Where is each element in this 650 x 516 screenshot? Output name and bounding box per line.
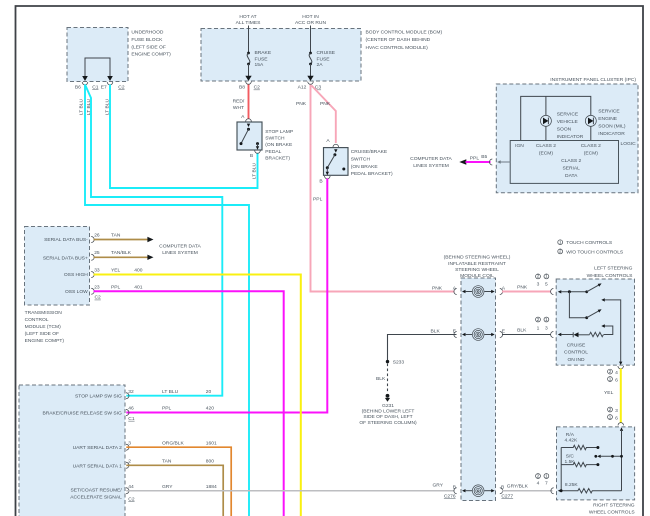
svg-text:WHT: WHT	[233, 105, 244, 111]
svg-text:S233: S233	[393, 360, 405, 366]
svg-text:PPL: PPL	[470, 155, 480, 161]
svg-text:STOP LAMP SW SIG: STOP LAMP SW SIG	[75, 394, 122, 400]
svg-text:2: 2	[609, 369, 612, 375]
svg-text:6: 6	[615, 416, 618, 422]
svg-text:LT BLU: LT BLU	[104, 98, 110, 115]
svg-text:3: 3	[537, 282, 540, 288]
cruise control on ind: diode	[573, 332, 589, 337]
indicator: service vehicle soon	[540, 111, 583, 140]
svg-text:SERVICE: SERVICE	[598, 108, 620, 114]
resistor S/C 1.5K	[561, 448, 599, 491]
svg-text:S/C: S/C	[566, 453, 575, 459]
module: transmission control module (TCM)	[25, 227, 90, 344]
svg-text:R/A: R/A	[566, 432, 575, 438]
svg-text:INDICATOR: INDICATOR	[557, 134, 584, 140]
wire GRY/BLK (coil B to right steering wheel controls)	[502, 473, 553, 490]
svg-text:4.42K: 4.42K	[565, 437, 579, 443]
svg-text:OSS LOW: OSS LOW	[65, 289, 88, 295]
svg-text:ON IND: ON IND	[567, 357, 585, 363]
svg-text:4: 4	[537, 481, 540, 487]
svg-text:B: B	[501, 485, 504, 491]
svg-text:SWITCH: SWITCH	[265, 136, 285, 142]
svg-text:1601: 1601	[206, 440, 217, 446]
svg-text:1: 1	[609, 414, 612, 420]
left controls: switch blade 1	[585, 283, 601, 293]
pin 44 set/coast resume/accelerate signal / wire GRY 1884	[70, 484, 454, 503]
svg-text:(CENTER OF DASH BEHIND: (CENTER OF DASH BEHIND	[366, 37, 431, 43]
svg-text:COMPUTER DATA: COMPUTER DATA	[159, 244, 201, 250]
connector C3 pin A12	[298, 82, 322, 91]
coil B (pin B to pin B)	[432, 482, 528, 499]
svg-text:INFLATABLE RESTRAINT: INFLATABLE RESTRAINT	[448, 261, 506, 267]
svg-text:LOGIC: LOGIC	[621, 141, 637, 147]
indicator: service engine soon (MIL)	[585, 108, 626, 137]
pin 3 UART serial data 2 / wire ORG/BLK 1601	[73, 440, 232, 516]
svg-text:COMPUTER DATA: COMPUTER DATA	[410, 156, 452, 162]
label HOT IN ACC OR RUN	[295, 14, 326, 26]
wire BLK dashed to ground	[376, 364, 387, 394]
svg-text:GRY: GRY	[432, 482, 443, 488]
svg-text:BLK: BLK	[431, 328, 441, 334]
left controls: branch to switch blade 2	[569, 292, 601, 319]
svg-text:SET/COAST RESUME/: SET/COAST RESUME/	[71, 488, 123, 494]
svg-text:15A: 15A	[255, 62, 264, 68]
svg-text:CRUISE: CRUISE	[567, 342, 586, 348]
connector C2 pin E7	[101, 82, 125, 91]
svg-text:420: 420	[206, 406, 214, 412]
svg-text:BLK: BLK	[517, 328, 527, 334]
svg-text:W/O TOUCH CONTROLS: W/O TOUCH CONTROLS	[566, 249, 624, 255]
wire PNK (A12 to cruise/brake switch A)	[312, 86, 336, 144]
svg-text:B8: B8	[239, 85, 245, 91]
svg-text:HOT AT: HOT AT	[239, 14, 256, 20]
svg-text:UART SERIAL DATA 2: UART SERIAL DATA 2	[73, 445, 122, 451]
svg-text:IGN: IGN	[515, 143, 524, 149]
svg-text:UART SERIAL DATA 1: UART SERIAL DATA 1	[73, 463, 122, 469]
svg-text:800: 800	[206, 459, 214, 465]
svg-text:ENGINE COMPT): ENGINE COMPT)	[25, 338, 65, 344]
svg-text:YEL: YEL	[111, 268, 121, 274]
svg-text:ORG/BLK: ORG/BLK	[162, 440, 184, 446]
svg-text:CLASS 2: CLASS 2	[561, 158, 581, 164]
svg-text:HVAC CONTROL MODULE): HVAC CONTROL MODULE)	[366, 45, 429, 51]
wire BLK (coil E to splice S233)	[388, 328, 457, 360]
svg-text:LINES SYSTEM: LINES SYSTEM	[162, 250, 198, 256]
module: right steering wheel controls	[557, 427, 636, 516]
svg-text:1: 1	[545, 473, 548, 479]
svg-text:23: 23	[94, 285, 100, 291]
svg-text:PPL: PPL	[162, 406, 172, 412]
right controls: wiper arrow	[594, 455, 623, 458]
svg-text:2: 2	[609, 407, 612, 413]
svg-text:PNK: PNK	[517, 285, 528, 291]
svg-text:LT BLU: LT BLU	[86, 98, 92, 115]
svg-text:7: 7	[545, 481, 548, 487]
label cruise control on ind	[564, 342, 588, 363]
wire PPL B5 (IPC to computer data lines system)	[459, 154, 510, 165]
svg-text:ENGINE: ENGINE	[598, 116, 617, 122]
svg-text:SERIAL: SERIAL	[562, 166, 580, 172]
wire RED/WHT (B8 to stop lamp switch A)	[233, 85, 249, 120]
svg-text:STOP LAMP: STOP LAMP	[265, 129, 293, 135]
svg-text:TRANSMISSION: TRANSMISSION	[25, 310, 63, 316]
svg-text:C2: C2	[118, 85, 125, 91]
svg-text:2: 2	[537, 317, 540, 323]
svg-text:SERVICE: SERVICE	[557, 111, 579, 117]
resistor R/A 4.42K	[561, 432, 599, 450]
connector C1 pin B6	[75, 82, 99, 91]
right controls entry connector from YEL	[608, 407, 624, 426]
svg-text:2: 2	[559, 249, 562, 255]
svg-text:A: A	[241, 114, 245, 120]
svg-text:C2: C2	[254, 85, 261, 91]
svg-text:BODY CONTROL MODULE (BCM): BODY CONTROL MODULE (BCM)	[366, 29, 443, 35]
svg-text:ACCELERATE SIGNAL: ACCELERATE SIGNAL	[70, 495, 122, 501]
svg-text:TAN: TAN	[162, 459, 172, 465]
svg-text:1884: 1884	[206, 484, 217, 490]
pin 2 UART serial data 1 / wire TAN 800	[73, 459, 224, 516]
svg-text:ALL TIMES: ALL TIMES	[236, 20, 261, 26]
fuse BRAKE FUSE 15A	[245, 26, 272, 81]
connector C2 pin B8	[239, 82, 260, 91]
svg-text:GRY: GRY	[162, 484, 173, 490]
pin 32 stop lamp sw sig / wire LT BLU 20	[75, 389, 211, 400]
svg-text:25: 25	[94, 250, 100, 256]
wire LT BLU (B6 straight down, off bottom)	[79, 85, 249, 516]
label HOT AT ALL TIMES	[236, 14, 261, 26]
svg-text:32: 32	[128, 389, 134, 395]
svg-text:SIDE OF DASH, LEFT: SIDE OF DASH, LEFT	[363, 414, 412, 420]
svg-text:LT BLU: LT BLU	[162, 389, 179, 395]
svg-text:BRACKET): BRACKET)	[265, 155, 290, 161]
svg-text:3: 3	[128, 440, 131, 446]
svg-text:YEL: YEL	[604, 390, 614, 396]
svg-text:(BEHIND STEERING WHEEL): (BEHIND STEERING WHEEL)	[444, 255, 511, 261]
resistor 8.25K row (GRY/BLK entry)	[551, 482, 622, 494]
svg-text:FUSE: FUSE	[255, 56, 269, 62]
legend note 2 w/o touch controls	[558, 249, 624, 256]
svg-text:CLASS 2: CLASS 2	[536, 143, 556, 149]
svg-text:PPL: PPL	[313, 196, 323, 202]
svg-text:44: 44	[128, 484, 134, 490]
cruise control on ind: resistor	[590, 324, 613, 336]
legend note 1 touch controls	[558, 240, 613, 247]
svg-text:OSS HIGH: OSS HIGH	[64, 272, 88, 278]
svg-text:2: 2	[537, 473, 540, 479]
svg-text:PEDAL BRACKET): PEDAL BRACKET)	[351, 171, 393, 177]
svg-text:2: 2	[537, 274, 540, 280]
svg-text:C276: C276	[444, 494, 456, 500]
svg-text:CONTROL: CONTROL	[564, 350, 588, 356]
svg-text:A: A	[502, 285, 506, 291]
wire PPL 420 (cruise/brake switch B to brake/cruise release sw sig)	[126, 179, 327, 413]
svg-text:400: 400	[134, 268, 142, 274]
svg-text:C277: C277	[501, 494, 513, 500]
svg-text:E: E	[502, 328, 506, 334]
left controls: common contact rail to box bottom	[601, 298, 622, 365]
module: body control module (BCM) fuse box	[201, 29, 442, 82]
svg-text:A: A	[326, 138, 330, 144]
svg-text:ACC OR RUN: ACC OR RUN	[295, 20, 326, 26]
svg-text:CLASS 2: CLASS 2	[581, 143, 601, 149]
wire YEL (left controls to right controls)	[604, 369, 621, 424]
svg-text:(ECM): (ECM)	[539, 150, 553, 156]
svg-text:PEDAL: PEDAL	[265, 149, 281, 155]
svg-text:401: 401	[134, 285, 142, 291]
splice S233	[386, 360, 405, 366]
svg-text:CRUISE/BRAKE: CRUISE/BRAKE	[351, 149, 388, 155]
svg-text:8.25K: 8.25K	[565, 482, 579, 488]
svg-text:3: 3	[545, 326, 548, 332]
svg-text:3: 3	[615, 408, 618, 414]
svg-text:20: 20	[206, 389, 212, 395]
svg-text:2: 2	[128, 459, 131, 465]
svg-text:C1: C1	[128, 416, 135, 422]
svg-text:FUSE: FUSE	[317, 56, 331, 62]
svg-text:WHEEL CONTROLS: WHEEL CONTROLS	[587, 273, 633, 279]
switch: cruise/brake switch	[319, 138, 393, 184]
left controls: BLK entry connector	[551, 332, 574, 338]
svg-text:SOON: SOON	[557, 126, 572, 132]
switch: stop lamp switch	[237, 114, 293, 162]
svg-text:TAN/BLK: TAN/BLK	[111, 250, 132, 256]
svg-text:RED/: RED/	[233, 99, 245, 105]
svg-text:B: B	[319, 178, 322, 184]
svg-text:PNK: PNK	[296, 101, 307, 107]
svg-text:2A: 2A	[317, 62, 324, 68]
svg-text:CRUISE: CRUISE	[317, 50, 336, 56]
svg-text:(LEFT SIDE OF: (LEFT SIDE OF	[25, 331, 59, 337]
module: left steering wheel controls	[556, 265, 634, 365]
svg-text:SWITCH: SWITCH	[351, 157, 371, 163]
svg-text:MODULE (TCM): MODULE (TCM)	[25, 324, 62, 330]
svg-text:B: B	[453, 485, 456, 491]
svg-text:SOON (MIL): SOON (MIL)	[598, 123, 626, 129]
svg-text:STEERING WHEEL: STEERING WHEEL	[455, 267, 499, 273]
wire BLK (coil E to left steering wheel controls)	[502, 317, 551, 335]
svg-text:MODULE COIL: MODULE COIL	[460, 273, 494, 279]
svg-text:LT BLU: LT BLU	[252, 162, 258, 179]
label computer data lines system (TCM side)	[159, 244, 201, 256]
svg-text:4: 4	[615, 370, 618, 376]
IPC bus wiring	[521, 96, 591, 140]
svg-text:INDICATOR: INDICATOR	[598, 131, 625, 137]
svg-text:5: 5	[545, 282, 548, 288]
module: underhood fuse block	[67, 28, 171, 82]
right controls: rail from top connector	[620, 427, 623, 490]
svg-text:(ECM): (ECM)	[584, 150, 598, 156]
svg-text:UNDERHOOD: UNDERHOOD	[131, 30, 164, 36]
svg-text:C2: C2	[128, 496, 135, 502]
svg-text:LT BLU: LT BLU	[79, 98, 85, 115]
svg-text:46: 46	[128, 406, 134, 412]
svg-text:LEFT STEERING: LEFT STEERING	[594, 265, 632, 271]
svg-text:PNK: PNK	[320, 101, 331, 107]
left controls exit connector to YEL	[608, 366, 624, 384]
svg-text:LINES SYSTEM: LINES SYSTEM	[413, 163, 449, 169]
svg-text:BRAKE: BRAKE	[255, 50, 272, 56]
module: cruise control module (bottom left)	[19, 385, 125, 516]
svg-text:HOT IN: HOT IN	[302, 14, 319, 20]
svg-text:1: 1	[559, 240, 562, 246]
svg-text:TOUCH CONTROLS: TOUCH CONTROLS	[566, 240, 613, 246]
svg-text:1: 1	[545, 274, 548, 280]
coil E (pin E to pin E)	[453, 328, 527, 341]
coil A (pin A to pin A)	[432, 285, 528, 298]
svg-text:B5: B5	[481, 154, 487, 160]
svg-text:33: 33	[94, 268, 100, 274]
wire LT BLU (E7 to stop lamp switch B)	[104, 85, 257, 189]
svg-text:GRY/BLK: GRY/BLK	[507, 483, 529, 489]
IPC logic box	[510, 141, 636, 184]
svg-text:E7: E7	[101, 85, 107, 91]
svg-text:C1: C1	[92, 85, 99, 91]
svg-text:C2: C2	[95, 295, 102, 301]
fuse block internal bus wire	[82, 58, 113, 81]
svg-text:PPL: PPL	[111, 285, 121, 291]
svg-text:BRAKE/CRUISE RELEASE SW SIG: BRAKE/CRUISE RELEASE SW SIG	[42, 410, 122, 416]
pin 46 brake/cruise release sw sig / wire PPL 420	[42, 406, 214, 422]
svg-text:CONTROL: CONTROL	[25, 317, 49, 323]
svg-text:SERIAL DATA BUS-: SERIAL DATA BUS-	[44, 237, 88, 243]
svg-text:FUSE BLOCK: FUSE BLOCK	[131, 37, 163, 43]
svg-text:1: 1	[609, 376, 612, 382]
svg-text:OF STEERING COLUMN): OF STEERING COLUMN)	[359, 420, 417, 426]
fuse CRUISE FUSE 2A	[307, 26, 335, 81]
svg-text:ENGINE COMPT): ENGINE COMPT)	[131, 52, 171, 58]
wire LT BLU (B6 to stop lamp sw sig pin 32)	[85, 85, 222, 396]
svg-text:SERIAL DATA BUS+: SERIAL DATA BUS+	[43, 255, 88, 261]
svg-text:1: 1	[537, 326, 540, 332]
svg-text:G231: G231	[382, 403, 394, 409]
svg-text:BLK: BLK	[376, 376, 386, 382]
TCM pin 33 OSS high / wire YEL 400	[64, 268, 301, 516]
svg-text:A12: A12	[298, 85, 307, 91]
svg-text:B: B	[250, 153, 253, 159]
wire PNK (A12 down to steering wheel module coil A)	[296, 85, 455, 292]
label computer data lines system (IPC side)	[410, 156, 452, 169]
svg-text:6: 6	[615, 378, 618, 384]
svg-text:VEHICLE: VEHICLE	[557, 119, 579, 125]
svg-text:26: 26	[94, 232, 100, 238]
svg-text:(ON BRAKE: (ON BRAKE	[265, 142, 293, 148]
svg-text:WHEEL CONTROLS: WHEEL CONTROLS	[589, 510, 635, 516]
svg-text:(BEHIND LOWER LEFT: (BEHIND LOWER LEFT	[362, 409, 415, 415]
svg-text:INSTRUMENT PANEL CLUSTER (IPC): INSTRUMENT PANEL CLUSTER (IPC)	[550, 77, 636, 83]
left controls: PNK entry connector	[551, 289, 587, 295]
svg-text:TAN: TAN	[111, 232, 121, 238]
TCM pin 23 OSS low / wire PPL 401	[65, 285, 284, 516]
svg-text:1: 1	[545, 317, 548, 323]
svg-text:(LEFT SIDE OF: (LEFT SIDE OF	[131, 44, 165, 50]
svg-text:RIGHT STEERING: RIGHT STEERING	[593, 502, 635, 508]
module: instrument panel cluster (IPC)	[496, 77, 638, 193]
svg-text:PNK: PNK	[432, 285, 443, 291]
module: steering wheel module coil	[444, 255, 511, 501]
TCM pin 25 serial data bus + / wire TAN/BLK	[43, 250, 154, 261]
TCM pin 26 serial data bus - / wire TAN	[44, 232, 153, 243]
wire PNK (coil A to left steering wheel controls)	[502, 274, 551, 292]
ground G231	[359, 394, 417, 426]
svg-text:B6: B6	[75, 85, 81, 91]
svg-text:(ON BRAKE: (ON BRAKE	[351, 164, 379, 170]
svg-text:DATA: DATA	[565, 173, 578, 179]
